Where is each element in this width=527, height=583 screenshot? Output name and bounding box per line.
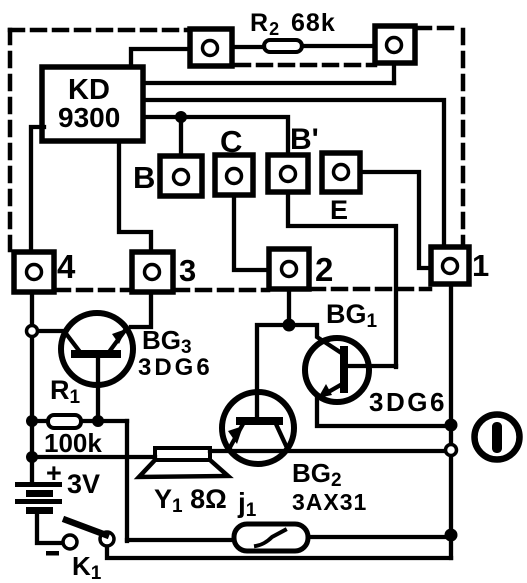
node BG3 base on R1 row [92, 415, 104, 427]
svg-text:BG1: BG1 [326, 299, 378, 332]
transistor BG3 emitter lead [109, 329, 126, 352]
wire top-right pad bottom stub [392, 63, 396, 83]
node open circle BG3 on left bus [27, 326, 38, 337]
transistor BG2 base bar [240, 417, 279, 425]
dashed enclosure border between top pads [236, 63, 375, 68]
switch K1 lever [66, 520, 106, 535]
svg-text:C: C [220, 124, 242, 159]
node J1 wire on right bus [445, 529, 458, 542]
wire left bus [30, 292, 34, 483]
wire junction to pad B top [179, 117, 183, 156]
wire KD9300 bottom pin to pad 3 top [119, 141, 151, 252]
transistor BG1 circle [305, 338, 369, 402]
battery 3V plate long 1 [15, 482, 62, 487]
wire BG3 base lead [96, 358, 100, 421]
wire pad 3 bottom to BG3 emitter [131, 292, 151, 327]
svg-text:100k: 100k [44, 428, 102, 458]
svg-text:3DG6: 3DG6 [369, 387, 447, 417]
transistor BG3 collector lead to bus [38, 331, 80, 352]
indicator symbol circle-bar [475, 415, 520, 460]
wire KD9300 left pin to pad 4 top [31, 127, 44, 252]
wire pad C bottom to pad 2 left [234, 196, 269, 270]
svg-text:Y1 8Ω: Y1 8Ω [154, 484, 227, 517]
speaker Y1 frame [155, 448, 210, 460]
svg-text:+: + [46, 458, 62, 488]
svg-text:2: 2 [315, 251, 333, 288]
pad C [215, 155, 253, 195]
dashed enclosure border top-left [10, 28, 188, 33]
transistor BG2 circle [222, 392, 294, 464]
svg-text:B: B [133, 160, 155, 195]
switch K1 left contact [63, 535, 77, 549]
wire KD9300 pin to pad B' top [143, 117, 288, 155]
pad B' [268, 155, 308, 192]
resistor R2 [264, 40, 302, 52]
wire speaker right to right bus (BG2 chord) [210, 449, 449, 453]
node junction below pad 2 [283, 319, 296, 332]
wire junction to BG1 base entry [289, 325, 343, 354]
dashed enclosure border bottom segment 2 [175, 288, 268, 293]
transistor BG1 base bar [340, 350, 348, 389]
wire KD9300 pin to top-right pad [143, 81, 394, 85]
node speaker wire on left bus [26, 451, 38, 463]
svg-text:3DG6: 3DG6 [138, 354, 213, 381]
wire pad 2 bottom to junction [287, 289, 291, 325]
relay coil J1 [234, 524, 308, 551]
pad 4 [14, 252, 54, 292]
pad E [322, 153, 360, 192]
wire speaker left lead [30, 455, 155, 459]
wire junction to BG2 base [257, 325, 289, 417]
wire relay J1 left lead [127, 538, 234, 542]
transistor BG2 collector lead [276, 424, 288, 450]
pad B [160, 156, 202, 196]
dashed enclosure border bottom segment 3 [311, 287, 430, 292]
transistor BG3 base bar [75, 350, 117, 358]
pad top-right [375, 26, 415, 63]
label minus [46, 551, 59, 556]
wire battery bottom lead to switch K1 [37, 513, 62, 543]
svg-text:9300: 9300 [58, 102, 120, 133]
transistor BG3 circle [61, 313, 133, 385]
wire pad E to pad 1 left [360, 172, 431, 268]
transistor BG1 emitter arrow [318, 384, 332, 398]
svg-text:R2 68k: R2 68k [250, 9, 336, 39]
svg-text:4: 4 [57, 248, 76, 285]
svg-text:3V: 3V [67, 469, 100, 499]
svg-text:j1: j1 [237, 487, 257, 521]
resistor R1 [48, 415, 81, 428]
pad 1 [431, 247, 469, 284]
pad 3 [132, 252, 173, 292]
wire R2 row left [232, 45, 264, 49]
svg-text:B': B' [290, 123, 319, 156]
wire mid-left drop bus [125, 421, 129, 541]
svg-text:3: 3 [179, 253, 196, 288]
transistor BG1 emitter lead [318, 383, 344, 398]
wire pad B' bottom to BG1 collector [288, 192, 396, 367]
wire bottom bus from switch [107, 547, 451, 558]
relay J1 slash mark [256, 530, 285, 546]
transistor BG2 emitter lead [229, 424, 243, 449]
wire R2 row right [302, 44, 375, 48]
wire BG1 collector lead [348, 364, 396, 368]
svg-text:K1: K1 [72, 551, 102, 583]
svg-text:BG2: BG2 [292, 458, 342, 491]
svg-text:1: 1 [472, 248, 489, 283]
battery 3V plate short 2 [26, 507, 53, 514]
IC U1 KD9300 box [42, 67, 143, 141]
pad top-left [190, 29, 232, 66]
pad 2 [269, 249, 309, 289]
transistor BG2 emitter arrow (PNP inward) [228, 426, 243, 444]
node open circle BG2 collector on right bus [446, 445, 457, 456]
node BG1 emitter wire on right bus [445, 419, 458, 432]
dashed enclosure border left [8, 30, 13, 252]
svg-text:E: E [330, 195, 348, 225]
wire KD9300 pin to pad 1 top [143, 100, 444, 247]
dashed enclosure border bottom segment 1 [56, 288, 131, 293]
wire right bus [449, 284, 453, 558]
battery 3V plate short 1 [26, 490, 53, 497]
transistor BG3 emitter arrow [112, 329, 126, 344]
wire top-left pad to KD9300 top pin [131, 49, 190, 67]
wire relay J1 right lead [308, 535, 449, 539]
wire R1 row [32, 419, 127, 423]
battery 3V plate long 2 [15, 499, 62, 504]
svg-text:3AX31: 3AX31 [292, 489, 367, 515]
dashed enclosure border right [461, 30, 466, 247]
node junction on B wire [175, 111, 187, 123]
speaker Y1 cone [139, 460, 228, 477]
wire BG1 emitter down and right to bus [317, 398, 449, 426]
switch K1 right contact [100, 532, 114, 546]
node R1 row on left bus [26, 415, 38, 427]
dashed enclosure border top-right [417, 26, 461, 31]
